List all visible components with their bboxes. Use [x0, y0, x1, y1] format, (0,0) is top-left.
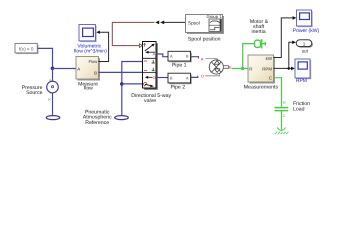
Spool position block	[186, 14, 225, 34]
node junction tank2	[120, 82, 124, 86]
wire Pipe1 to motor A	[191, 57, 199, 59]
bottom cell	[148, 76, 153, 78]
svg-text:O: O	[153, 76, 156, 80]
svg-text:flow (m^3/min): flow (m^3/min)	[74, 48, 107, 54]
spool port marker	[139, 44, 142, 48]
spool wire (physical, brown)	[112, 22, 154, 45]
svg-text:C: C	[283, 114, 286, 118]
node junction pressure	[51, 67, 55, 71]
svg-text:C: C	[269, 75, 272, 80]
svg-text:R: R	[283, 101, 286, 105]
svg-text:RPM: RPM	[296, 78, 307, 84]
out port oval	[296, 40, 313, 48]
wire junction to valve lower left port	[122, 83, 143, 85]
wire pressure source to reference tank	[52, 93, 54, 116]
arrowhead into scope	[96, 31, 100, 34]
wire C to friction load	[274, 78, 282, 105]
Measurements block	[248, 55, 275, 84]
wire valve B to Pipe 2	[156, 77, 168, 79]
svg-text:Pipe 2: Pipe 2	[170, 85, 185, 91]
svg-text:1: 1	[303, 42, 306, 47]
arrowhead power	[293, 16, 297, 20]
Volumetric flow scope	[79, 25, 97, 43]
wire junction down to pressure source	[52, 68, 54, 81]
pneumatic reference tank 2	[115, 116, 129, 120]
svg-text:Pipe 1: Pipe 1	[172, 62, 187, 68]
svg-text:RPM: RPM	[262, 66, 272, 71]
svg-text:A: A	[153, 52, 156, 56]
svg-text:Source: Source	[26, 90, 43, 96]
wire junction to Measure flow A	[53, 68, 77, 70]
svg-text:Power (kW): Power (kW)	[293, 28, 320, 34]
friction load	[275, 101, 289, 135]
wire Flow port to volumetric scope	[99, 32, 109, 61]
Pipe 2	[168, 73, 192, 84]
svg-text:Spool position: Spool position	[188, 37, 221, 43]
converter arrows	[155, 21, 159, 25]
RPM scope	[295, 59, 311, 79]
wire valve A to Pipe 1	[156, 54, 168, 57]
svg-text:valve: valve	[144, 98, 156, 104]
svg-text:B: B	[94, 71, 97, 76]
svg-text:Reference: Reference	[85, 120, 109, 126]
wire f(x)=0 to junction	[38, 48, 53, 68]
wire junction up to inertia	[243, 44, 255, 69]
svg-text:Group 1: Group 1	[206, 14, 222, 19]
Measure flow block	[76, 57, 100, 81]
tiny port mark	[48, 99, 51, 101]
wire RPM to scope and out	[274, 67, 292, 69]
svg-text:out: out	[302, 48, 309, 53]
solver config block f(x)=0	[15, 43, 39, 54]
directional valve	[139, 42, 157, 90]
exhaust line to tank 2	[122, 62, 143, 116]
svg-text:inertia: inertia	[252, 29, 266, 35]
pressure source	[47, 79, 59, 94]
pneumatic reference tank 1	[46, 116, 60, 120]
svg-text:O: O	[201, 74, 204, 79]
wire kW to Power scope	[274, 18, 294, 58]
svg-text:kW: kW	[266, 56, 273, 61]
svg-text:A: A	[77, 66, 80, 71]
pneumatic motor	[209, 60, 231, 74]
top cell: diagonal arrow	[143, 43, 145, 46]
svg-text:R: R	[229, 65, 232, 70]
svg-text:Spool: Spool	[188, 20, 200, 25]
svg-text:f(x) = 0: f(x) = 0	[19, 46, 34, 51]
svg-text:Flow: Flow	[88, 59, 98, 64]
middle cell	[144, 60, 147, 63]
svg-text:R: R	[249, 66, 252, 71]
inertia	[255, 39, 266, 48]
svg-text:Measurements: Measurements	[244, 84, 279, 90]
Pipe 1	[168, 51, 192, 62]
svg-text:A: A	[201, 56, 204, 61]
wire Measure flow B to valve P	[99, 71, 143, 73]
mechanical reference	[281, 126, 283, 130]
svg-text:Load: Load	[293, 106, 305, 112]
svg-text:flow: flow	[84, 86, 93, 92]
green wire motor R to junction and Measurements R	[232, 68, 249, 70]
wire converter to spool position block	[163, 21, 186, 23]
Power scope	[297, 10, 313, 27]
node junction green	[241, 67, 244, 70]
wire Pipe2 to motor O	[191, 76, 198, 78]
